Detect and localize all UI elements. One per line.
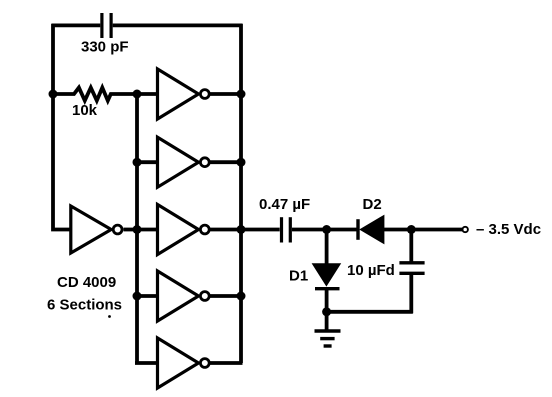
wire: top feedback, left segment to C1 [52, 23, 101, 27]
node: output bus row 3 [237, 225, 246, 234]
wire: node C to C3 top [409, 230, 413, 262]
wire: U1f output to input bus [124, 228, 138, 232]
wire: row 3 output bus to C2 [241, 228, 280, 232]
svg-text:0.47 µF: 0.47 µF [259, 196, 310, 213]
wire: node C to output terminal [411, 228, 462, 232]
wire: output stub U1a [210, 92, 241, 96]
wire: right output bus vertical [239, 24, 243, 363]
node A [322, 225, 331, 234]
svg-text:CD 4009: CD 4009 [57, 274, 116, 291]
wire: output stub U1b [210, 160, 241, 164]
wire: node A to D1 [325, 230, 329, 265]
wire: C2 to node A [292, 228, 327, 232]
wire: C3 bottom down [409, 273, 413, 313]
node: output bus row 1 [237, 90, 246, 99]
wire: D2 to node C [384, 228, 411, 232]
node: output bus row 2 [237, 158, 246, 167]
resistor R1 [53, 88, 137, 101]
wire: input stub U1d [137, 294, 159, 298]
node: left rail / R1 junction [49, 90, 58, 99]
node B [322, 307, 331, 316]
wire: D1 to node B [325, 289, 329, 312]
terminal: output [463, 227, 468, 232]
diode D2 [358, 216, 384, 244]
wire: inverter input bus vertical [135, 94, 139, 363]
wire: output stub U1d [210, 294, 241, 298]
svg-text:D2: D2 [363, 196, 382, 213]
wire: input stub U1c [137, 228, 159, 232]
inverter U1e [158, 338, 210, 388]
capacitor C2 0.47 uF [282, 217, 291, 242]
node: input bus row 2 [133, 158, 142, 167]
wire: input stub U1a [137, 92, 159, 96]
wire: input stub U1b [137, 160, 159, 164]
inverter U1f (driver) [71, 206, 122, 253]
wire: left rail (top corner down to driver input) [53, 24, 72, 230]
inverter U1b [158, 137, 210, 187]
svg-text:– 3.5 Vdc: – 3.5 Vdc [476, 221, 541, 238]
svg-text:D1: D1 [289, 268, 308, 285]
wire: top feedback, right segment to output bus [113, 23, 243, 27]
svg-text:10k: 10k [72, 102, 98, 119]
stray period mark [108, 315, 111, 318]
inverter U1a [158, 69, 210, 119]
wire: node A to D2 [327, 228, 358, 232]
inverter U1c [158, 205, 210, 255]
svg-text:330 pF: 330 pF [81, 39, 129, 56]
node: input bus row 4 [133, 292, 142, 301]
node: input bus row 3 [133, 225, 142, 234]
wire: output stub U1e (bus bottom corner) [210, 361, 243, 365]
diode D1 [313, 264, 341, 289]
node: input bus row 1 [133, 90, 142, 99]
capacitor C3 10 uFd [399, 263, 424, 274]
node C [407, 225, 416, 234]
node: output bus row 4 [237, 292, 246, 301]
capacitor C1 330 pF [102, 13, 111, 38]
svg-text:10 µFd: 10 µFd [347, 262, 395, 279]
svg-text:6 Sections: 6 Sections [47, 297, 122, 314]
wire: input stub U1e (bus bottom corner) [135, 361, 159, 365]
wire: output stub U1c [210, 228, 241, 232]
ground [315, 312, 341, 346]
wire: node B to C3 bottom corner [327, 310, 413, 314]
inverter U1d [158, 271, 210, 321]
